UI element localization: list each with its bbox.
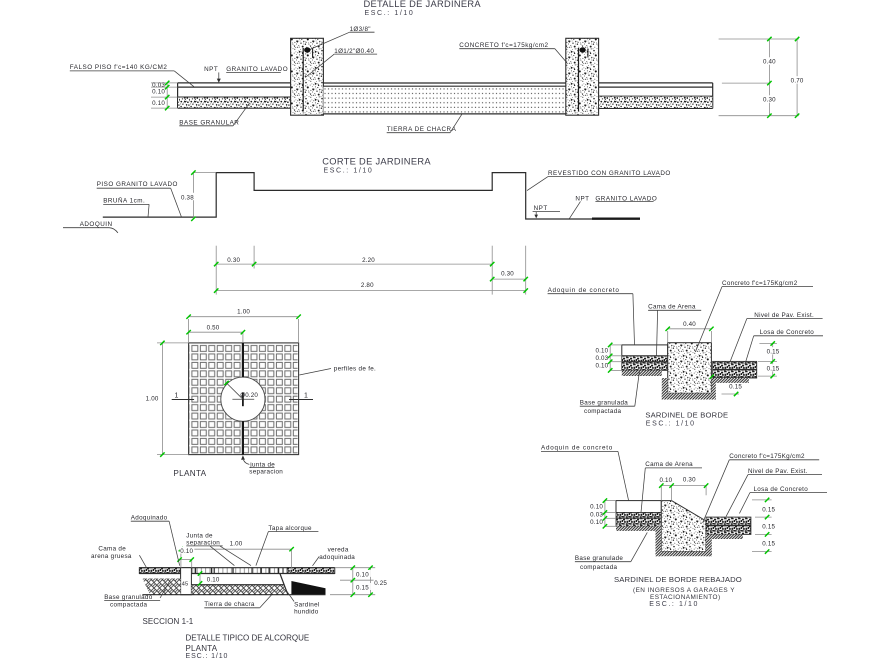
- right dims 0.10/0.15/0.25: [330, 566, 389, 597]
- svg-text:separacion: separacion: [249, 468, 283, 475]
- svg-text:0.40: 0.40: [683, 321, 696, 328]
- label Losa de Concreto: [739, 486, 827, 514]
- svg-text:0.10: 0.10: [595, 348, 608, 355]
- svg-text:1.00: 1.00: [230, 541, 243, 548]
- label BASE GRANULAR: [179, 103, 249, 127]
- label Adoquin de concreto: [548, 287, 635, 345]
- dim 1.00 (left): [146, 341, 189, 457]
- svg-text:Losa de Concreto: Losa de Concreto: [754, 486, 809, 493]
- label Losa de Concreto: [745, 329, 823, 364]
- svg-text:PLANTA: PLANTA: [173, 469, 206, 478]
- sardinel hundido (solid black): [291, 581, 325, 595]
- svg-text:0.30: 0.30: [501, 271, 514, 278]
- svg-text:hundido: hundido: [294, 609, 319, 616]
- dim 0.40: [666, 321, 714, 343]
- svg-text:PLANTA: PLANTA: [186, 644, 218, 653]
- svg-text:Base granulade: Base granulade: [575, 555, 624, 562]
- svg-text:Cama de Arena: Cama de Arena: [648, 304, 696, 311]
- left granular weave: [142, 579, 180, 595]
- svg-text:NPT: NPT: [204, 66, 218, 73]
- svg-text:0.38: 0.38: [181, 194, 194, 201]
- svg-text:0.30: 0.30: [227, 257, 240, 264]
- svg-text:Sardinel: Sardinel: [294, 601, 320, 608]
- right existing pavement: [713, 361, 757, 383]
- left dims 0.03/0.10/0.10: [151, 81, 178, 111]
- hatch strip below left block: [616, 526, 661, 531]
- label Adoquin de concreto: [541, 445, 629, 501]
- left dims 0.10/0.03/0.10: [590, 498, 616, 528]
- hatch strip below left block: [622, 370, 662, 376]
- svg-text:0.30: 0.30: [683, 477, 696, 484]
- label Concreto f'c=175Kg/cm2: [703, 453, 820, 523]
- tree grate slats band: [191, 568, 287, 574]
- svg-text:CONCRETO f'c=175kg/cm2: CONCRETO f'c=175kg/cm2: [459, 42, 548, 49]
- svg-text:PISO GRANITO LAVADO: PISO GRANITO LAVADO: [97, 181, 178, 188]
- central sardinel concrete block: [668, 343, 712, 394]
- svg-text:ESC.: 1/10: ESC.: 1/10: [365, 10, 415, 17]
- svg-text:SARDINEL DE BORDE: SARDINEL DE BORDE: [645, 411, 728, 420]
- bottom dim 0.15: [710, 375, 743, 397]
- corte profile line: [103, 173, 592, 219]
- svg-text:adoquinada: adoquinada: [319, 554, 355, 561]
- label Sardinel hundido: [286, 591, 319, 616]
- svg-text:Adoquin de concreto: Adoquin de concreto: [548, 287, 620, 294]
- svg-text:DETALLE TIPICO DE ALCORQUE: DETALLE TIPICO DE ALCORQUE: [186, 633, 310, 642]
- corte dimension lines 0.30 / 2.20 / 0.30 / 2.80: [214, 246, 528, 295]
- label Nivel de Pav. Exist.: [726, 468, 822, 517]
- svg-text:Concreto f'c=175Kg/cm2: Concreto f'c=175Kg/cm2: [729, 453, 805, 460]
- svg-text:ESC.: 1/10: ESC.: 1/10: [649, 601, 699, 608]
- svg-text:0.15: 0.15: [762, 524, 775, 531]
- label Cama de Arena: [641, 461, 702, 512]
- label Base granulada compactada: [580, 372, 640, 415]
- svg-text:0.70: 0.70: [791, 78, 804, 85]
- svg-text:vereda: vereda: [328, 546, 349, 553]
- right existing pavement: [706, 517, 751, 539]
- svg-text:Concreto f'c=175Kg/cm2: Concreto f'c=175Kg/cm2: [722, 280, 798, 287]
- svg-text:1: 1: [304, 393, 308, 400]
- left floor slab lines: [178, 83, 291, 108]
- svg-text:0.10: 0.10: [590, 519, 603, 526]
- svg-text:0.10: 0.10: [595, 363, 608, 370]
- left planter wall column: [291, 38, 324, 115]
- label Junta de separacion: [186, 532, 251, 565]
- svg-text:ESC.: 1/10: ESC.: 1/10: [646, 420, 696, 427]
- svg-text:ADOQUIN: ADOQUIN: [80, 221, 113, 228]
- title: CORTE DE JARDINERA: [322, 157, 431, 175]
- svg-text:0.15: 0.15: [729, 384, 742, 391]
- svg-text:1.00: 1.00: [237, 309, 250, 316]
- svg-text:Tierra de chacra: Tierra de chacra: [204, 601, 255, 608]
- svg-text:DETALLE DE JARDINERA: DETALLE DE JARDINERA: [364, 0, 482, 9]
- dim 0.50: [186, 324, 245, 343]
- right dimension group 0.40/0.30/0.70: [719, 37, 807, 118]
- label ADOQUIN: [63, 221, 118, 233]
- svg-text:compactada: compactada: [584, 408, 622, 415]
- svg-text:0.15: 0.15: [767, 348, 780, 355]
- rebar in right wall: [578, 48, 580, 112]
- label Nivel de Pav. Exist.: [730, 312, 822, 361]
- label Adoquinado: [131, 515, 180, 566]
- label NPT (with down arrow): [533, 205, 560, 218]
- title SARDINEL DE BORDE: [645, 411, 728, 428]
- svg-text:Cama de Arena: Cama de Arena: [645, 461, 693, 468]
- svg-text:0.15: 0.15: [356, 584, 369, 591]
- right planter wall column: [566, 38, 599, 115]
- svg-text:arena gruesa: arena gruesa: [91, 553, 132, 560]
- label BRUÑA 1cm.: [103, 196, 149, 218]
- svg-text:Nivel de Pav. Exist.: Nivel de Pav. Exist.: [754, 312, 814, 319]
- dim 0.10 (interior): [198, 571, 220, 585]
- right dims 0.15/0.15/0.15: [752, 498, 775, 554]
- sardinel box with 45: [181, 568, 192, 595]
- left dims 0.10/0.03/0.10: [595, 343, 621, 373]
- label PISO GRANITO LAVADO: [97, 181, 182, 217]
- svg-text:0.10: 0.10: [356, 571, 369, 578]
- svg-text:NPT: NPT: [575, 195, 589, 202]
- band top/bottom lines: [139, 568, 334, 574]
- svg-text:BRUÑA 1cm.: BRUÑA 1cm.: [103, 196, 145, 205]
- dim 0.10 (box): [177, 547, 194, 568]
- svg-text:Nivel de Pav. Exist.: Nivel de Pav. Exist.: [748, 468, 808, 475]
- svg-text:Adoquinado: Adoquinado: [131, 515, 168, 522]
- label Base granulade compactada: [575, 532, 647, 570]
- thick NPT granito lavado line: [592, 217, 640, 219]
- adoquin block (left, white): [622, 345, 668, 356]
- svg-text:2.80: 2.80: [361, 282, 374, 289]
- label NPT GRANITO LAVADO (right): [569, 195, 657, 218]
- adoquin block (left, white): [616, 501, 661, 513]
- label Tierra de chacra: [204, 595, 271, 608]
- svg-text:compactada: compactada: [580, 564, 618, 571]
- section mark 1 (left): [172, 393, 194, 400]
- svg-text:NPT: NPT: [534, 205, 548, 212]
- svg-text:0.10: 0.10: [180, 548, 193, 555]
- tierra de chacra weave fill: [191, 585, 288, 595]
- svg-text:SARDINEL DE BORDE REBAJADO: SARDINEL DE BORDE REBAJADO: [614, 575, 742, 584]
- svg-text:compactada: compactada: [110, 602, 148, 609]
- svg-text:0.10: 0.10: [152, 100, 165, 107]
- label Cama de Arena: [648, 304, 701, 356]
- left granular base strip: [178, 98, 290, 108]
- dim 0.38: [180, 170, 216, 221]
- svg-text:ESC.: 1/10: ESC.: 1/10: [186, 653, 229, 658]
- svg-text:1.00: 1.00: [146, 396, 159, 403]
- svg-text:Losa de Concreto: Losa de Concreto: [760, 329, 815, 336]
- planter interior soil (tierra de chacra): [323, 83, 565, 114]
- svg-text:ESTACIONAMIENTO): ESTACIONAMIENTO): [650, 594, 721, 601]
- granular layer: [622, 362, 668, 371]
- dim 1.00: [179, 541, 294, 568]
- svg-text:0.10: 0.10: [207, 577, 220, 584]
- top dims 0.10 / 0.30: [659, 477, 708, 501]
- svg-text:0.40: 0.40: [763, 59, 776, 66]
- svg-text:0.15: 0.15: [762, 507, 775, 514]
- svg-text:Adoquin de concreto: Adoquin de concreto: [541, 445, 613, 452]
- svg-text:BASE GRANULAR: BASE GRANULAR: [179, 119, 239, 126]
- excavation hatch around block bottom: [656, 526, 712, 556]
- svg-text:45: 45: [182, 581, 189, 587]
- svg-text:Junta de: Junta de: [186, 532, 213, 539]
- svg-text:1Ø3/8": 1Ø3/8": [350, 26, 371, 33]
- svg-text:0.25: 0.25: [374, 580, 387, 587]
- svg-text:FALSO PISO f'c=140 KG/CM2: FALSO PISO f'c=140 KG/CM2: [70, 64, 168, 71]
- svg-text:Tapa alcorque: Tapa alcorque: [268, 525, 312, 532]
- central lowered sardinel block (sloped top): [661, 501, 706, 552]
- title: DETALLE DE JARDINERA: [364, 0, 482, 17]
- label vereda adoquinada: [313, 546, 356, 565]
- label Concreto f'c=175Kg/cm2: [696, 280, 814, 352]
- label REVESTIDO CON GRANITO LAVADO: [527, 170, 671, 191]
- svg-text:GRANITO LAVADO: GRANITO LAVADO: [226, 66, 288, 73]
- svg-text:Cama de: Cama de: [98, 545, 126, 552]
- label Tapa alcorque: [256, 525, 319, 566]
- adoquinado strip (left): [139, 568, 180, 574]
- svg-text:perfiles de fe.: perfiles de fe.: [334, 366, 376, 373]
- label TIERRA DE CHACRA: [387, 114, 462, 133]
- svg-text:2.20: 2.20: [362, 257, 375, 264]
- svg-text:Base granulado: Base granulado: [104, 594, 153, 601]
- dim 1.00 (top): [186, 309, 300, 343]
- right white wedge diagonal: [280, 574, 288, 595]
- svg-text:0.03: 0.03: [590, 512, 603, 519]
- label 1Ø3/8": [311, 26, 375, 49]
- grate square with small squares grid: [189, 343, 299, 455]
- label Base granulado compactada: [104, 581, 170, 609]
- label FALSO PISO: [70, 64, 195, 87]
- svg-text:0.15: 0.15: [762, 541, 775, 548]
- svg-text:0.03: 0.03: [595, 355, 608, 362]
- label junta de separacion (plan): [241, 455, 283, 475]
- svg-text:Ø0.20: Ø0.20: [240, 392, 258, 399]
- svg-text:0.15: 0.15: [767, 365, 780, 372]
- svg-text:TIERRA DE CHACRA: TIERRA DE CHACRA: [387, 126, 457, 133]
- svg-text:(EN INGRESOS A GARAGES Y: (EN INGRESOS A GARAGES Y: [633, 587, 735, 594]
- svg-text:1: 1: [175, 393, 179, 400]
- center circle Ø0.20: [221, 377, 265, 421]
- svg-text:0.30: 0.30: [763, 97, 776, 104]
- svg-text:0.10: 0.10: [659, 477, 672, 484]
- label 1Ø1/2"Ø0.40: [305, 48, 377, 78]
- svg-text:ESC.: 1/10: ESC.: 1/10: [324, 168, 374, 175]
- label Cama de arena gruesa: [91, 545, 147, 568]
- label NPT GRANITO LAVADO with down arrow: [204, 66, 288, 83]
- svg-text:CORTE DE JARDINERA: CORTE DE JARDINERA: [322, 157, 431, 167]
- bottom line: [142, 594, 325, 596]
- label CONCRETO f'c=175kg/cm2: [459, 42, 567, 63]
- rebar in left wall: [302, 48, 304, 112]
- svg-text:REVESTIDO CON GRANITO LAVADO: REVESTIDO CON GRANITO LAVADO: [548, 170, 671, 177]
- svg-text:0.10: 0.10: [590, 503, 603, 510]
- granular layer: [616, 518, 661, 526]
- svg-text:Base granulada: Base granulada: [580, 400, 629, 407]
- sand layer: [622, 356, 668, 362]
- svg-text:0.10: 0.10: [152, 89, 165, 96]
- excavation hatch around block bottom: [662, 378, 716, 400]
- label perfiles de fe.: [299, 366, 376, 375]
- right dims 0.15/0.15: [758, 341, 781, 378]
- title DETALLE TIPICO DE ALCORQUE: [186, 633, 310, 658]
- sand layer: [616, 513, 661, 519]
- svg-text:SECCION 1-1: SECCION 1-1: [143, 617, 194, 626]
- center crosshair + radius leader: [224, 381, 258, 406]
- svg-text:0.50: 0.50: [207, 324, 220, 331]
- section mark 1 (right): [289, 393, 313, 400]
- vereda adoquinada strip (right): [287, 568, 335, 574]
- junta de separacion dark vertical line: [242, 343, 244, 455]
- right floor slab: [599, 83, 713, 109]
- title SARDINEL DE BORDE REBAJADO: [614, 575, 742, 608]
